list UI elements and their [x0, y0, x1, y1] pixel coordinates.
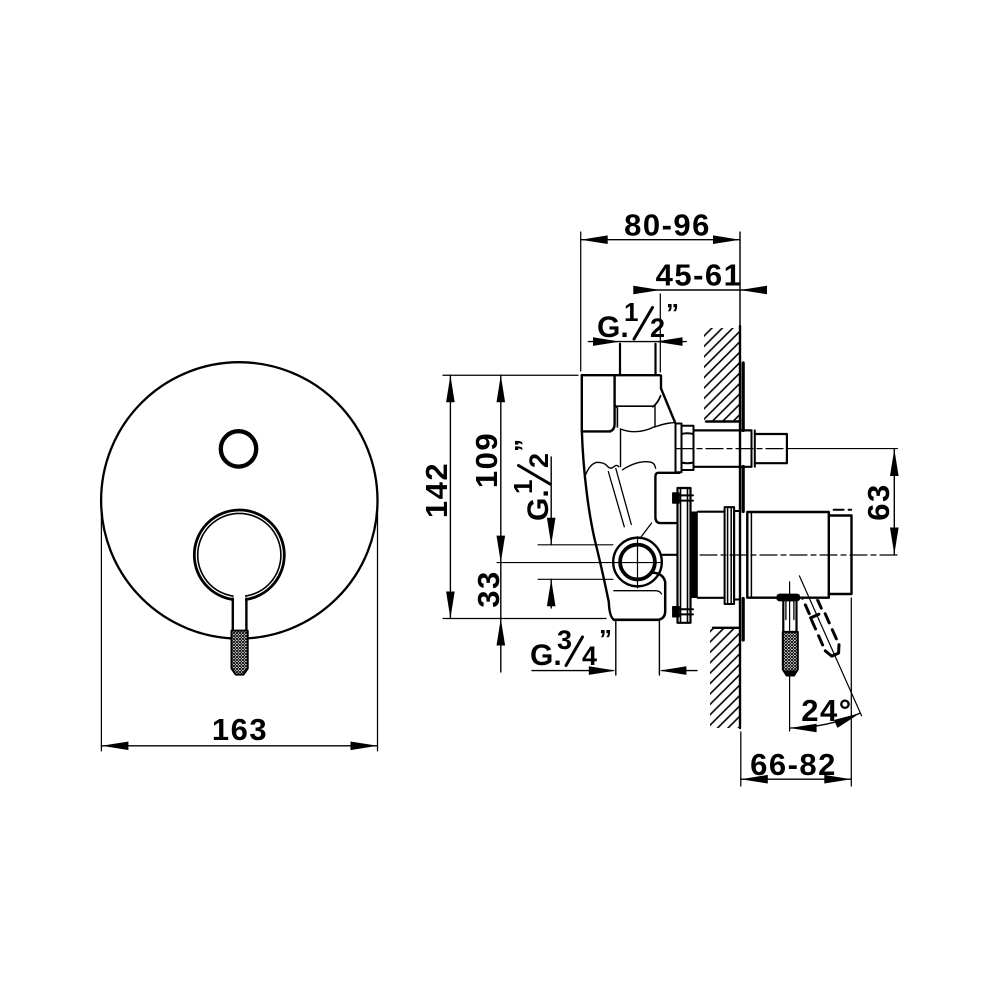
socket walls inside body: [621, 406, 656, 467]
dim 80-96 ext left: [580, 232, 582, 371]
dim G1/2 vertical line: [550, 457, 552, 608]
cartridge rear section: [734, 511, 740, 600]
dim 163 extension lines: [101, 508, 377, 751]
dim 45-61 line: [638, 289, 762, 291]
svg-text:3: 3: [557, 625, 572, 655]
svg-text:24°: 24°: [801, 693, 852, 728]
inlet tangent ext lines: [538, 545, 613, 580]
svg-text:63: 63: [861, 483, 896, 520]
trim plate circle: [101, 362, 377, 638]
dim G1/2 top text: [597, 297, 679, 344]
svg-text:142: 142: [419, 462, 454, 518]
inlet circle outer: [613, 538, 662, 587]
boss chamfer and socket neck left: [615, 405, 618, 428]
svg-text:1: 1: [624, 297, 638, 327]
handle ring inner: [198, 513, 281, 596]
svg-text:109: 109: [469, 432, 504, 488]
lever knurl: [232, 631, 248, 675]
svg-text:163: 163: [212, 712, 268, 747]
wall hatch lower: [710, 628, 740, 728]
stub washer: [676, 424, 682, 473]
stub pipe through wall: [694, 430, 752, 466]
stub axis ext line: [788, 448, 898, 450]
svg-text:33: 33: [471, 570, 506, 607]
top reference ext line: [443, 374, 578, 376]
stub centerline: [676, 448, 788, 450]
body top inlet pipe G1/2: [620, 344, 656, 375]
lever rod inner lines: [786, 601, 794, 619]
fillet line notch to inlet boss: [641, 523, 652, 537]
lever rod: [783, 601, 796, 632]
dim 33 line: [500, 563, 502, 672]
dim 63 line: [893, 449, 895, 555]
handle ring outer: [194, 510, 284, 600]
body lower right edge: [653, 573, 665, 620]
casting scallop lines: [585, 462, 619, 477]
stub end pipe: [755, 434, 787, 463]
body right edge upper / outlet shoulder: [661, 376, 675, 424]
body interior step line: [582, 430, 611, 432]
lever rod sides: [233, 599, 247, 631]
svg-text:”: ”: [599, 624, 612, 654]
inlet crosshair vertical: [637, 537, 639, 588]
dim G1/2 top line: [588, 341, 686, 343]
socket bottom wavy line: [621, 427, 656, 432]
body left edge: [582, 375, 614, 620]
svg-text:1: 1: [508, 480, 538, 494]
lever rod mask: [234, 594, 245, 631]
svg-text:66-82: 66-82: [750, 747, 837, 782]
stub step ring: [752, 430, 755, 466]
flange screw bottom: [673, 607, 679, 617]
dim G3/4 text: [530, 624, 612, 672]
dim 45-61 ext left: [659, 294, 661, 372]
svg-text:45-61: 45-61: [656, 258, 743, 293]
dim 80-96 line: [581, 239, 740, 241]
inlet circle inner: [620, 545, 655, 580]
dim 163 arrows: [101, 742, 128, 751]
wall surface line: [739, 326, 741, 728]
boss step under inlet: [614, 591, 662, 594]
dim 109 line: [500, 375, 502, 562]
dim G1/2 vertical text: [508, 439, 555, 521]
flange screw top: [673, 493, 679, 503]
lever base (black): [776, 594, 800, 602]
lever axis line: [789, 582, 791, 731]
dim G3/4 line: [532, 670, 697, 672]
mounting plate edge: [742, 363, 745, 640]
body bottom face: [614, 618, 659, 621]
boss right fillet: [653, 396, 661, 407]
casting interior diagonals: [608, 469, 631, 527]
body notch under outlet: [655, 473, 679, 523]
mid reference ext line (inlet center): [497, 562, 662, 564]
body web to flange: [661, 554, 677, 556]
wall hatch upper: [704, 328, 740, 422]
inlet socket boss left edge: [610, 376, 615, 431]
cartridge axis centerline: [700, 554, 898, 556]
dim 66-82 ext lines: [741, 598, 852, 786]
svg-text:80-96: 80-96: [624, 208, 711, 243]
handle hub cylinder: [747, 512, 829, 598]
dim 142 line: [449, 375, 451, 618]
angle arc 24deg: [790, 713, 861, 728]
lever knurl tip: [783, 632, 798, 676]
handle end cap: [829, 516, 852, 595]
cartridge body section: [698, 512, 725, 598]
svg-text:”: ”: [509, 439, 539, 452]
boss bottom edge: [616, 405, 652, 407]
bottom reference ext line: [443, 618, 606, 620]
svg-text:2: 2: [524, 453, 554, 468]
cartridge black band: [691, 512, 698, 599]
dim 66-82 line: [741, 778, 852, 780]
body top face: [582, 374, 660, 376]
dim 80-96 ext right (wall line up): [739, 232, 741, 328]
mounting flange plate: [678, 488, 691, 623]
svg-text:4: 4: [582, 641, 597, 671]
end cap phantom dashes: [834, 509, 852, 511]
casting line to washer: [656, 423, 675, 427]
svg-text:”: ”: [666, 298, 679, 328]
cartridge ring: [725, 507, 735, 604]
diverter button circle: [221, 431, 256, 466]
dim 163 line: [101, 745, 377, 747]
tilted lever axis line: [799, 576, 861, 716]
stub hex nut: [682, 426, 694, 470]
svg-text:2: 2: [650, 313, 665, 343]
bottom outlet pipe G3/4: [616, 621, 660, 675]
handle hub front face line: [750, 512, 752, 598]
